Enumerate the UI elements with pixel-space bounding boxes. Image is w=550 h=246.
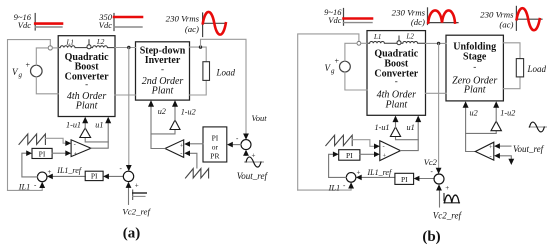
PI box PI1b (current loop) [339, 150, 360, 161]
350Vdc waveform icon [114, 14, 142, 31]
arrow into S1a right [47, 174, 53, 180]
wire: IL1_ref from PI2a to S1a [52, 175, 85, 177]
arrow into comparator C2a plus input [184, 141, 190, 147]
rectified sine waveform icon (b) [428, 8, 459, 25]
svg-text:PI: PI [212, 134, 219, 143]
wire: C2a output to u2 line [151, 103, 165, 149]
svg-text:(ac): (ac) [185, 24, 199, 34]
junction dot Vc2 tap (b) [437, 42, 440, 45]
wire: Vc2 sense line down (a) [128, 48, 130, 167]
arrow into S2b bottom [436, 184, 442, 190]
wire: PI-or-PR output to comparator C2a [190, 143, 204, 145]
summing node S3a (Vout error) [236, 135, 256, 160]
svg-text:+: + [135, 181, 139, 189]
svg-text:-: - [236, 135, 239, 143]
wire: NOT output up to U1a (1-u1) [84, 120, 86, 129]
NOT gate (b2) [491, 121, 501, 131]
ac sine waveform icon [203, 12, 226, 37]
arrow into PI1b left edge [333, 152, 339, 158]
dc reference icon Vc2_ref (a) [133, 190, 147, 200]
source Vg (b) [325, 57, 351, 76]
svg-text:(a): (a) [123, 226, 141, 242]
junction dot Vc2 tap (a) [127, 46, 130, 49]
svg-text:(dc): (dc) [411, 17, 425, 27]
svg-text:(ac): (ac) [499, 20, 513, 30]
svg-text:L1: L1 [66, 38, 74, 46]
wire: node to Vg plus terminal (a) [36, 48, 48, 65]
wire: node to block U1b [361, 42, 367, 44]
svg-text:Vout: Vout [252, 113, 268, 123]
svg-text:1-u2: 1-u2 [181, 108, 196, 117]
svg-text:IL1: IL1 [328, 184, 341, 193]
svg-text:Plant: Plant [75, 101, 98, 112]
node between L1 and L2 (a) [87, 40, 91, 49]
controller box PI or PR (a) [203, 127, 227, 162]
svg-text:Vout_ref: Vout_ref [513, 144, 545, 154]
junction dot Vout tap (a) [199, 45, 202, 48]
svg-text:Vc2_ref: Vc2_ref [433, 211, 463, 221]
PI box PI2b (voltage loop) [395, 173, 414, 184]
wire: Vg minus to block U1b bottom-left (b) [345, 72, 367, 90]
svg-text:PI: PI [346, 151, 353, 160]
block U2a: Step-down Inverter [136, 42, 190, 100]
block U1b: Quadratic Boost Converter (b) [367, 31, 426, 116]
wire: NOT output up to U2b (1-u2) [495, 104, 497, 122]
comparator C1a (PWM, points right) [71, 140, 91, 158]
PI box PI1a (current loop) [32, 148, 52, 158]
svg-text:+: + [357, 169, 361, 177]
arrow into summing node S2a top [126, 165, 132, 171]
svg-text:+: + [489, 144, 493, 151]
svg-text:L1: L1 [373, 33, 381, 41]
inductor L2 (a) [91, 38, 115, 48]
arrow into comparator C1b plus input [374, 152, 380, 158]
wire: left sense rail + top input wire (a) [8, 40, 51, 191]
wire: IL1_ref from PI2b to S1b [361, 176, 395, 178]
inductor L1 (b) [367, 33, 397, 43]
svg-text:230 Vrms: 230 Vrms [392, 7, 426, 17]
svg-text:IL1_ref: IL1_ref [367, 168, 393, 177]
wire: C1b output to u1 line [401, 118, 419, 150]
svg-text:Vdc: Vdc [18, 20, 31, 30]
node between L1 and L2 (b) [397, 36, 401, 45]
dc input waveform icon (b) [344, 9, 373, 26]
wire: node to block U1a (a) [52, 47, 58, 49]
wire: C2b minus input from down-arrow stub [499, 156, 511, 161]
arrow into C2b plus input [494, 143, 500, 149]
resistor Load (b) [516, 59, 523, 77]
summing node S2a (Vc2 error) [120, 165, 139, 190]
svg-text:-: - [34, 181, 37, 189]
svg-text:230 Vrms: 230 Vrms [166, 14, 200, 24]
svg-text:-: - [473, 62, 476, 72]
svg-text:Plant: Plant [384, 99, 407, 110]
arrow u1 into U1a bottom [105, 117, 111, 124]
svg-text:IL1_ref: IL1_ref [56, 166, 82, 175]
wire: node to Vg plus terminal (b) [345, 43, 357, 61]
svg-text:IL1: IL1 [18, 183, 31, 192]
svg-text:u1: u1 [407, 123, 415, 132]
comparator C2b (sign detector, points left) [475, 142, 494, 160]
ac sine waveform icon (b) [516, 6, 542, 30]
down arrowhead on C2b minus stub [508, 159, 514, 165]
svg-text:-: - [180, 150, 182, 157]
svg-text:L2: L2 [406, 33, 415, 41]
svg-text:PI: PI [39, 149, 46, 158]
arrow into comparator C1b minus input [374, 144, 380, 150]
wire: C1a output to u1 line [91, 120, 108, 149]
arrow into S2a bottom [126, 182, 132, 188]
wire: Vc2_ref line into S2a bottom [128, 184, 130, 204]
sawtooth carrier icon (a2) [186, 169, 209, 178]
svg-text:-: - [343, 181, 346, 189]
svg-text:+: + [383, 152, 387, 159]
wire: Load bottom return to U2a (a) [190, 80, 207, 95]
wire: branch to NOT gate (a2) [151, 130, 175, 134]
svg-text:+: + [180, 143, 184, 150]
wire: NOT output up to U2a (1-u2) [174, 103, 176, 121]
wire: NOT output up to U1b (1-u1) [395, 118, 397, 127]
svg-text:g: g [331, 67, 335, 75]
svg-text:Plant: Plant [463, 85, 486, 96]
NOT gate (a1) [80, 128, 91, 138]
arrow 1-u1 into U1b bottom [393, 116, 399, 123]
svg-text:Load: Load [216, 67, 236, 77]
svg-text:or: or [212, 143, 219, 152]
wire: IL1 feedback along bottom [8, 187, 43, 190]
svg-text:-: - [161, 64, 164, 74]
svg-text:Plant: Plant [151, 85, 174, 96]
wire: sawtooth to comparator C2a minus input [190, 153, 197, 168]
summing node S2b (Vc2 error) [431, 168, 450, 193]
svg-text:+: + [26, 61, 31, 70]
wire: PI1b output to comparator C1b plus input [360, 153, 374, 155]
svg-text:+: + [74, 151, 78, 158]
arrow into summing node S2b top [436, 168, 442, 174]
arrow u2 into U2a bottom [148, 100, 154, 107]
arrow into S1a bottom [39, 182, 45, 188]
arrow 1-u2 into U2a bottom [172, 100, 178, 107]
wire: branch to NOT gate (a1) [85, 138, 108, 142]
arrow into S1b bottom [348, 182, 354, 188]
svg-text:PI: PI [91, 172, 98, 181]
svg-text:Vdc: Vdc [99, 20, 112, 30]
arrow into summing node S3a top [243, 134, 249, 140]
wire: sawtooth to comparator C1a minus input [45, 138, 65, 143]
svg-text:-: - [74, 141, 76, 148]
wire: U2a to Load top (a) [190, 47, 207, 62]
summing node S1a (IL1 error) [34, 168, 52, 189]
wire: Vc2 sense line down (b) [438, 43, 440, 169]
block U2a title text [140, 45, 186, 96]
summing node S1b (IL1 error) [343, 169, 361, 190]
arrow into PI2a right edge [103, 174, 109, 180]
arrow into PI1a left edge [26, 150, 32, 156]
block U2b: Unfolding Stage [446, 35, 503, 101]
wire: branch to NOT gate (b1) [396, 137, 419, 140]
wire: sawtooth to comparator C1b minus input [352, 140, 374, 147]
block U1a title text [65, 52, 109, 112]
svg-text:-: - [383, 143, 385, 150]
wire: left sense rail + top input wire (b) [298, 34, 359, 190]
wire: S1b output up to PI1b input [329, 154, 347, 177]
svg-text:Vout_ref: Vout_ref [237, 171, 269, 181]
svg-text:1-u2: 1-u2 [500, 109, 515, 118]
wire: C2b output to u2 line [466, 104, 476, 151]
wire: U1a to U2a bottom rail (a) [115, 94, 136, 96]
wire: U2b to Load top (b) [503, 43, 520, 59]
comparator C1b (PWM, points right) [380, 141, 401, 161]
block U1b title text [374, 49, 418, 111]
svg-text:-: - [395, 76, 398, 86]
arrow into comparator C1a plus input [65, 150, 71, 156]
wire: Vc2_ref line into S2b bottom [439, 187, 441, 208]
arrow into PI-or-PR right edge [227, 142, 233, 148]
sawtooth carrier icon (a1) [19, 134, 45, 144]
svg-text:Load: Load [527, 64, 547, 74]
arrow 1-u1 into U1a bottom [82, 117, 88, 124]
arrow into S3a bottom [243, 150, 249, 156]
wire: S3a output to PI-or-PR box (a) [232, 144, 241, 146]
wire: U1b to U2b top rail [426, 42, 447, 44]
wire: Vout sense up-over-down (a) [201, 39, 247, 135]
sine reference icon under S3a [245, 152, 264, 167]
wire: S2a output to PI2a input [109, 175, 124, 177]
arrow into S1b right [356, 175, 362, 181]
svg-text:Vdc: Vdc [328, 15, 341, 25]
wire: branch to NOT gate (b2) [466, 132, 497, 134]
svg-text:u2: u2 [158, 107, 166, 116]
svg-text:+: + [445, 184, 449, 192]
svg-text:Vc2_ref: Vc2_ref [122, 207, 151, 217]
inductor L2 (b) [401, 33, 426, 44]
arrow 1-u2 into U2b bottom [493, 101, 499, 108]
svg-text:-: - [85, 79, 88, 89]
block U1a: Quadratic Boost Converter (a) [58, 36, 115, 117]
comparator C2a (PWM, points left) [165, 140, 184, 158]
svg-text:(b): (b) [422, 229, 440, 245]
dc input waveform icon [35, 14, 62, 31]
arrow into comparator C2a minus input [184, 151, 190, 157]
svg-text:1-u1: 1-u1 [375, 123, 390, 132]
PI box PI2a (voltage loop) [85, 171, 103, 180]
svg-text:g: g [19, 71, 23, 79]
wire: IL1 feedback along bottom (b) [298, 188, 351, 190]
arrow into PI2b right edge [414, 176, 420, 182]
inductor L1 (a) [58, 38, 87, 47]
arrow into C2b minus input [494, 153, 500, 159]
svg-text:L2: L2 [96, 38, 105, 46]
arrow u2 into U2b bottom [463, 101, 469, 108]
wire: S2b output to PI2b input [419, 178, 434, 180]
wire: U1a to U2a top rail (a) [115, 47, 136, 49]
rectified sine reference icon Vc2_ref (b) [444, 194, 460, 203]
svg-text:Vc2: Vc2 [424, 157, 438, 167]
wire: S1a output up to PI1a input [22, 153, 38, 177]
sawtooth carrier icon (b1) [326, 135, 352, 145]
arrow into comparator C1a minus input [65, 140, 71, 146]
node: input terminal circle (a) [48, 46, 52, 50]
wire: Load bottom return to U2b (b) [503, 77, 520, 89]
svg-text:-: - [120, 165, 123, 173]
wire: Vg minus to block U1a bottom-left (a) [36, 77, 58, 94]
NOT gate (a2) [170, 120, 180, 130]
svg-text:230 Vrms: 230 Vrms [480, 9, 514, 19]
svg-text:-: - [490, 153, 492, 160]
wire: PI1a output to comparator C1a plus input [52, 152, 65, 154]
arrow u1 into U1b bottom [415, 116, 421, 123]
NOT gate (b1) [390, 127, 400, 137]
svg-text:u1: u1 [95, 120, 103, 129]
svg-text:-: - [431, 168, 434, 176]
svg-text:PI: PI [401, 175, 408, 184]
wire: U1b to U2b bottom rail [426, 92, 447, 94]
node: input terminal circle (b) [357, 41, 361, 45]
block U2b title text [452, 41, 497, 95]
svg-text:+: + [335, 57, 340, 66]
svg-text:PR: PR [210, 152, 219, 161]
svg-text:1-u1: 1-u1 [66, 120, 81, 129]
sine icon near Vout_ref (b) [529, 122, 547, 132]
svg-text:u2: u2 [470, 109, 478, 118]
wire: Vout_ref into C2b plus input [499, 145, 511, 147]
source Vg (a) [12, 61, 42, 80]
resistor Load (a) [203, 62, 210, 81]
